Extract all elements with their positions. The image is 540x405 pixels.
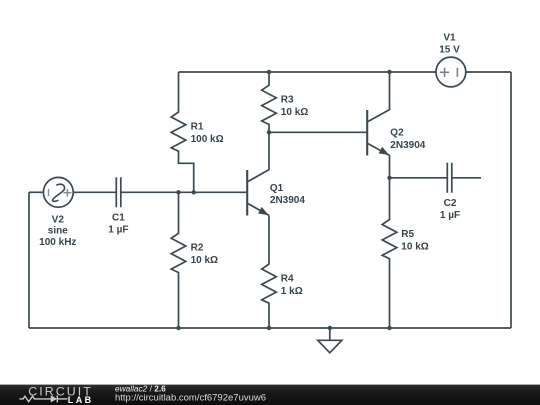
svg-text:C1: C1 xyxy=(112,212,125,223)
svg-text:2N3904: 2N3904 xyxy=(390,140,425,151)
node R5 bottom junction xyxy=(387,326,391,330)
V1 polarity marks xyxy=(440,68,458,77)
svg-text:1 µF: 1 µF xyxy=(440,210,460,221)
node R4 bottom junction xyxy=(267,326,271,330)
svg-text:1 µF: 1 µF xyxy=(108,225,128,236)
capacitor C1 xyxy=(116,177,121,207)
node Q2 collector top junction xyxy=(387,70,391,74)
node R1 R2 base junction xyxy=(176,190,180,194)
svg-text:15 V: 15 V xyxy=(439,44,460,55)
node R2 bottom junction xyxy=(176,326,180,330)
wire R3 node to Q2 base xyxy=(269,131,366,133)
ground xyxy=(318,328,342,353)
wire top rail left segment xyxy=(179,71,437,73)
transistor Q1 xyxy=(247,132,269,215)
voltage source V1 circle xyxy=(436,57,466,87)
resistor R2 xyxy=(171,192,186,328)
svg-text:1 kΩ: 1 kΩ xyxy=(281,286,303,297)
transistor Q2 xyxy=(367,72,389,178)
svg-text:10 kΩ: 10 kΩ xyxy=(281,107,308,118)
wire V2 left lead xyxy=(29,191,43,193)
svg-text:http://circuitlab.com/cf6792e7: http://circuitlab.com/cf6792e7uvuw6 xyxy=(115,392,266,403)
svg-text:V2: V2 xyxy=(52,214,65,225)
node R1 jog junction xyxy=(192,190,196,194)
svg-text:R5: R5 xyxy=(401,229,414,240)
capacitor C2 xyxy=(447,163,452,193)
svg-text:R2: R2 xyxy=(191,243,204,254)
node R3 bottom junction xyxy=(267,130,271,134)
svg-text:100 kHz: 100 kHz xyxy=(39,237,76,248)
wire V2 to C1 xyxy=(73,191,116,193)
svg-text:V1: V1 xyxy=(443,33,456,44)
resistor R5 xyxy=(382,178,397,328)
svg-text:Q1: Q1 xyxy=(270,183,284,194)
wire right rail xyxy=(510,72,512,328)
svg-text:C2: C2 xyxy=(444,198,457,209)
footer bar xyxy=(0,385,540,405)
svg-text:R1: R1 xyxy=(191,121,204,132)
V2 sine symbol xyxy=(52,184,64,201)
svg-text:100 kΩ: 100 kΩ xyxy=(191,134,224,145)
wire bottom rail xyxy=(29,327,511,329)
logo resistor diode symbol xyxy=(19,395,67,402)
svg-text:10 kΩ: 10 kΩ xyxy=(401,241,428,252)
node ground junction xyxy=(328,326,332,330)
svg-text:2N3904: 2N3904 xyxy=(270,195,305,206)
resistor R4 xyxy=(262,215,277,328)
wire top rail right segment xyxy=(466,71,511,73)
svg-text:R4: R4 xyxy=(281,273,294,284)
node R3 top junction xyxy=(267,70,271,74)
wire C2 output stub xyxy=(452,177,481,179)
svg-text:R3: R3 xyxy=(281,95,294,106)
svg-text:Q2: Q2 xyxy=(390,128,404,139)
wire C1 to Q1 base xyxy=(121,191,247,193)
svg-text:10 kΩ: 10 kΩ xyxy=(191,255,218,266)
resistor R3 xyxy=(262,72,277,132)
wire left rail xyxy=(28,192,30,328)
wire Q2 emitter to C2 xyxy=(390,177,448,179)
svg-text:LAB: LAB xyxy=(68,395,94,405)
resistor R1 xyxy=(171,72,194,192)
voltage source V2 circle xyxy=(43,177,73,207)
V2 polarity marks xyxy=(49,189,72,197)
node Q2 emitter junction xyxy=(387,176,391,180)
svg-text:sine: sine xyxy=(48,226,68,237)
